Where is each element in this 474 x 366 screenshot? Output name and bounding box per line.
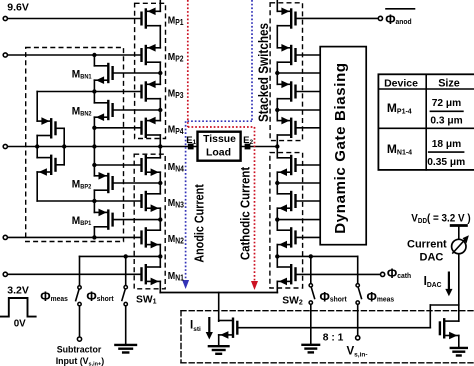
wire M_BP1 gate to stack node <box>114 219 161 221</box>
transistor M_BN2 <box>94 100 112 121</box>
svg-text:MN4: MN4 <box>168 161 185 173</box>
wire left-pair upper source to center <box>36 136 38 147</box>
svg-text:0.35 μm: 0.35 μm <box>427 157 465 168</box>
wire phi_short-right to ground <box>310 304 312 345</box>
svg-text:0V: 0V <box>14 319 26 330</box>
wire phi_meas-right drop <box>357 256 359 283</box>
transistor right stack N4 <box>277 155 295 176</box>
transistor M_P4 <box>142 117 161 138</box>
current DAC symbol <box>452 235 469 253</box>
svg-text:Vs,in-: Vs,in- <box>347 346 368 359</box>
svg-text:MN2: MN2 <box>168 234 184 246</box>
svg-text:MP2: MP2 <box>168 51 184 63</box>
wire phi_short-left to ground <box>125 306 127 345</box>
dashed box right NMOS stack SW2 <box>270 153 303 288</box>
transistor right stack P1 <box>277 8 295 29</box>
switch phi_short left <box>122 286 128 306</box>
dashed box middle PMOS stack <box>135 3 166 138</box>
switch phi_meas left <box>76 286 82 306</box>
electrode node E2 square <box>245 144 251 150</box>
junction node A2 <box>92 89 96 93</box>
wire right stack series rail <box>276 0 278 293</box>
terminal 9.6V <box>3 16 7 20</box>
label current DAC <box>407 238 447 263</box>
table header Device <box>384 77 418 89</box>
ground phi_short left <box>114 345 137 353</box>
svg-text:Φcath: Φcath <box>387 265 411 281</box>
svg-text:E1: E1 <box>186 135 196 146</box>
wire bias node to M_P4 gate <box>94 127 140 129</box>
wire left-pair top rail <box>36 92 38 122</box>
dashed box bias generator <box>26 48 124 242</box>
svg-text:Current: Current <box>407 238 447 250</box>
table M_N1-4 <box>387 142 412 157</box>
transistor M_P1 <box>142 8 161 29</box>
wire middle stack series rail <box>159 0 161 293</box>
label M_N3 <box>168 197 184 209</box>
wire right-stack gate N4 to DGB <box>297 164 321 166</box>
wire phi_meas-right to Vs terminal <box>357 304 359 335</box>
ground phi_short right <box>301 345 320 353</box>
wire phi_short-right drop <box>310 256 312 283</box>
transistor right stack N3 <box>277 191 295 212</box>
label anodic current <box>192 184 207 262</box>
junction node A1 <box>92 53 96 57</box>
label V_s,in- <box>347 346 368 359</box>
supply bar VDD <box>450 224 468 227</box>
dashed box output stage <box>181 311 474 363</box>
terminal input 4 <box>3 235 7 239</box>
label M_BN1 <box>72 68 92 81</box>
label 3.2V <box>7 285 29 297</box>
svg-text:3.2V: 3.2V <box>7 285 29 297</box>
terminal input 2 <box>3 53 7 57</box>
svg-text:MN1: MN1 <box>168 270 184 282</box>
svg-text:Size: Size <box>438 77 460 89</box>
wire E2 to right stack <box>241 146 278 148</box>
label E2 <box>243 135 253 146</box>
transistor M_BP1 <box>94 209 112 230</box>
electrode node E1 square <box>188 144 194 150</box>
label E1 <box>186 135 196 146</box>
svg-text:Cathodic Current: Cathodic Current <box>238 167 253 260</box>
svg-text:Device: Device <box>384 77 418 89</box>
wire mirror gate 8:1 <box>238 327 430 329</box>
wire tap node4 to DGB <box>277 219 320 221</box>
label M_N4 <box>168 161 185 173</box>
svg-text:MBP1: MBP1 <box>72 215 92 228</box>
junction node F1 <box>309 254 313 258</box>
label 0V <box>14 319 26 330</box>
dynamic gate biasing box <box>320 47 366 245</box>
terminal subtractor input <box>77 337 81 341</box>
transistor M_P2 <box>142 44 161 65</box>
label subtractor input <box>56 344 104 366</box>
label M_P3 <box>168 88 184 100</box>
label phi_short right <box>320 289 348 305</box>
label M_N1 <box>168 270 184 282</box>
tissue load box <box>198 132 241 161</box>
terminal phi_cath <box>381 272 385 276</box>
svg-text:MP3: MP3 <box>168 88 184 100</box>
wire tap node3 to DGB <box>277 182 320 184</box>
table header Size <box>438 77 460 89</box>
svg-text:Φanod: Φanod <box>385 12 411 28</box>
svg-text:Subtractor: Subtractor <box>57 344 102 354</box>
label phi_cath <box>387 265 411 281</box>
svg-text:IDAC: IDAC <box>424 273 442 289</box>
ground I_sti source <box>208 346 230 354</box>
label phi_short left <box>86 288 114 304</box>
transistor M_BN1 <box>94 63 112 84</box>
transistor right stack N1 <box>277 264 295 285</box>
svg-text:9.6V: 9.6V <box>7 2 29 14</box>
wire left-pair gates tie <box>57 128 64 165</box>
terminal input 3 <box>3 144 7 148</box>
wire right-stack gate N3 to DGB <box>297 200 321 202</box>
svg-text:E2: E2 <box>243 135 253 146</box>
svg-text:Stacked Switches: Stacked Switches <box>256 23 271 122</box>
wire I_sti source to ground <box>218 335 220 346</box>
terminal V_s,in- <box>356 336 360 340</box>
svg-text:SW2: SW2 <box>282 295 303 306</box>
wire terminal4 to M_N2 gate <box>5 236 141 238</box>
svg-text:0.3 μm: 0.3 μm <box>430 115 462 126</box>
junction node C1 <box>158 71 162 75</box>
label M_BP1 <box>72 215 92 228</box>
wire right-stack top gate to phi_anod <box>297 17 379 19</box>
wire terminal2 to M_P2 gate <box>8 54 141 56</box>
wire DAC to mirror drain <box>458 254 460 322</box>
wire bias chain rail <box>93 55 95 237</box>
table 72um <box>432 98 461 109</box>
junction node A3 <box>92 126 96 130</box>
label dynamic gate biasing <box>332 62 349 233</box>
junction node A4 <box>92 144 96 148</box>
wire left-pair lower drain from center <box>36 147 38 158</box>
junction node C3 E1 <box>158 144 162 148</box>
wire M_BN2 gate to stack node <box>114 109 161 111</box>
junction node E6 <box>275 254 279 258</box>
svg-text:MP4: MP4 <box>168 124 185 136</box>
svg-text:MBN2: MBN2 <box>72 105 92 118</box>
switch phi_short right <box>309 284 315 305</box>
wire terminal5 to M_N1 gate <box>5 273 141 275</box>
svg-text:Φmeas: Φmeas <box>367 289 395 305</box>
junction node D1 <box>124 254 128 258</box>
label I_DAC <box>424 273 442 289</box>
dashed box right PMOS stack <box>270 3 302 141</box>
wire M_BP2 gate to stack node <box>114 182 161 184</box>
junction node C6 <box>158 254 162 258</box>
svg-text:Anodic Current: Anodic Current <box>192 184 207 262</box>
table device size <box>378 74 474 170</box>
transistor left-pair lower <box>37 155 55 176</box>
fraction bar MN <box>428 151 465 153</box>
svg-text:MBN1: MBN1 <box>72 68 92 81</box>
dashed box middle NMOS stack SW1 <box>134 154 165 289</box>
junction node B1 <box>35 144 39 148</box>
label 8:1 <box>323 332 344 343</box>
svg-text:MP1: MP1 <box>168 15 184 27</box>
transistor M_N4 <box>142 155 161 176</box>
wire right-stack gate N2 to DGB <box>297 236 321 238</box>
wire tap node1 to DGB <box>277 72 320 74</box>
junction node E3 E2 <box>275 144 279 148</box>
wire VDD to DAC <box>458 227 460 240</box>
table 0.3um <box>430 115 462 126</box>
wire right-stack gate P2 to DGB <box>297 54 321 56</box>
wire left-pair drain rail to M_P3 gate <box>37 91 141 93</box>
transistor M_N2 <box>142 227 161 248</box>
transistor right stack P4 <box>277 117 295 138</box>
svg-text:Dynamic Gate Biasing: Dynamic Gate Biasing <box>332 62 349 233</box>
svg-text:VDD( = 3.2 V ): VDD( = 3.2 V ) <box>411 213 470 225</box>
wire M_BN1 gate to stack node <box>114 72 161 74</box>
wire left-pair lower source down <box>36 172 38 201</box>
I_DAC arrow <box>445 272 452 297</box>
transistor right stack P3 <box>277 81 295 102</box>
wire phi_meas-left to subtractor terminal <box>79 306 81 337</box>
label SW2 <box>282 295 303 306</box>
wire tap node2 to DGB <box>277 109 320 111</box>
junction node E2r <box>275 108 279 112</box>
junction node E1r <box>275 71 279 75</box>
label M_BP2 <box>72 178 92 191</box>
label M_BN2 <box>72 105 92 118</box>
svg-text:18 μm: 18 μm <box>432 139 461 150</box>
wire DAC diode loop <box>430 305 459 328</box>
table M_P1-4 <box>387 101 412 116</box>
square wave 3.2V/0V <box>0 298 37 317</box>
junction node A6 <box>92 199 96 203</box>
transistor M_N3 <box>142 191 161 212</box>
svg-text:MBP2: MBP2 <box>72 178 92 191</box>
wire bottom rail SW1 to SW2 <box>160 292 277 294</box>
svg-text:8 : 1: 8 : 1 <box>323 332 344 343</box>
junction node C4 <box>158 181 162 185</box>
junction node C2 <box>158 108 162 112</box>
junction node E4 <box>275 181 279 185</box>
svg-text:Φmeas: Φmeas <box>40 288 68 304</box>
junction node E5 <box>275 217 279 221</box>
label phi_anod <box>385 12 411 28</box>
wire right-stack bottom gate to phi_cath <box>297 273 381 275</box>
label I_sti <box>190 320 201 333</box>
junction node B2 <box>62 144 66 148</box>
svg-text:Φshort: Φshort <box>320 289 348 305</box>
wire right-stack gate P4 to DGB <box>297 127 321 129</box>
label phi_meas right <box>367 289 395 305</box>
anodic current dotted path (blue) <box>182 0 252 289</box>
label M_N2 <box>168 234 184 246</box>
svg-text:Input (Vs,in+): Input (Vs,in+) <box>56 356 104 366</box>
label SW1 <box>136 294 157 305</box>
wire SW2 node to phi switches <box>277 255 357 257</box>
wire phi_meas-left drop <box>79 256 81 285</box>
label cathodic current <box>238 167 253 260</box>
label stacked switches <box>256 23 271 122</box>
svg-text:SW1: SW1 <box>136 294 157 305</box>
phi_anod overline <box>385 8 415 10</box>
wire 9.6V supply to M_P1 gate <box>8 18 141 20</box>
I_sti arrow <box>206 317 213 340</box>
transistor M_BP2 <box>94 172 112 193</box>
wire left-pair source to M_N3 gate <box>37 200 141 202</box>
transistor M_P3 <box>142 81 161 102</box>
wire SW1 node to phi switches <box>80 255 161 257</box>
label M_P4 <box>168 124 185 136</box>
svg-text:Tissue: Tissue <box>203 134 236 145</box>
transistor I_sti mirror <box>219 318 238 339</box>
svg-text:Φshort: Φshort <box>86 288 114 304</box>
label 9.6V <box>7 2 29 14</box>
label V_DD supply <box>411 213 470 225</box>
wire right-stack gate P3 to DGB <box>297 91 321 93</box>
transistor left-pair upper <box>37 117 55 138</box>
fraction bar MP <box>430 110 464 112</box>
junction node A5 <box>92 163 96 167</box>
label M_P1 <box>168 15 184 27</box>
junction node A7 <box>92 235 96 239</box>
junction node C5 <box>158 217 162 221</box>
ground DAC mirror <box>450 348 468 356</box>
terminal input 5 <box>3 272 7 276</box>
wire I_sti drain drop <box>218 293 220 322</box>
terminal phi_anod <box>378 16 382 20</box>
wire mirror source to ground <box>458 336 460 348</box>
transistor right stack N2 <box>277 227 295 248</box>
transistor DAC mirror <box>440 318 459 339</box>
table 18um <box>432 139 461 150</box>
wire phi_short-left drop <box>125 256 127 285</box>
transistor right stack P2 <box>277 44 295 65</box>
svg-text:MN3: MN3 <box>168 197 184 209</box>
switch phi_meas right <box>356 284 362 305</box>
cathodic current dotted path (red) <box>188 0 258 290</box>
svg-text:72 μm: 72 μm <box>432 98 461 109</box>
label phi_meas left <box>40 288 68 304</box>
svg-text:Load: Load <box>206 146 231 158</box>
label M_P2 <box>168 51 184 63</box>
transistor M_N1 <box>142 264 161 285</box>
table 0.35um <box>427 157 465 168</box>
wire terminal3 / node E1 horizontal <box>5 146 197 148</box>
svg-text:DAC: DAC <box>420 251 444 263</box>
label tissue load <box>203 134 236 158</box>
wire bias node to M_N4 gate <box>94 164 140 166</box>
svg-text:Isti: Isti <box>190 320 201 333</box>
